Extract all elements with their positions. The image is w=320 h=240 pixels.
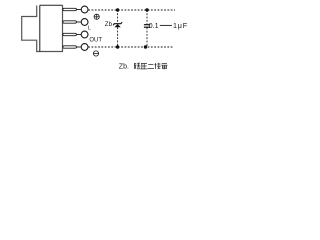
svg-text:1μF: 1μF [173, 21, 188, 30]
svg-text:0.1: 0.1 [149, 21, 159, 30]
svg-text:OUT: OUT [89, 38, 102, 44]
svg-text:Zb: Zb [105, 21, 113, 28]
svg-text:L: L [88, 26, 91, 32]
svg-text:Zb.: Zb. [119, 64, 129, 71]
